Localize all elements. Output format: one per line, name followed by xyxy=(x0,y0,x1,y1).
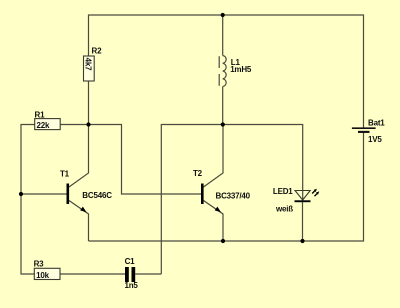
transistor T1 xyxy=(60,170,112,213)
wire R3 right lead xyxy=(60,273,125,275)
wire T1 emitter xyxy=(69,201,89,242)
inductor L1 xyxy=(219,56,252,87)
capacitor C1 xyxy=(125,257,139,290)
node T1 base junction xyxy=(19,192,23,196)
node L1 top junction xyxy=(221,13,225,17)
LED LED1 xyxy=(273,187,319,214)
svg-text:BC337/40: BC337/40 xyxy=(216,192,251,201)
node LED cathode junction xyxy=(300,239,304,243)
svg-text:weiß: weiß xyxy=(275,205,293,214)
svg-text:10k: 10k xyxy=(36,271,49,280)
svg-text:1n5: 1n5 xyxy=(125,281,139,290)
wire T2 collector xyxy=(204,125,224,188)
svg-text:C1: C1 xyxy=(125,257,136,266)
battery Bat1 xyxy=(352,119,385,144)
node T2 emitter junction xyxy=(221,239,225,243)
transistor T2 xyxy=(193,169,251,212)
wire C1 right lead xyxy=(135,273,161,275)
wire L1 top lead xyxy=(222,15,224,56)
svg-text:T1: T1 xyxy=(60,170,70,179)
svg-text:22k: 22k xyxy=(37,121,50,130)
wire T1 collector xyxy=(69,125,89,188)
node R1-R2-T1 junction xyxy=(86,122,90,126)
svg-text:1V5: 1V5 xyxy=(368,135,382,144)
wire L1 bottom lead xyxy=(222,87,224,125)
node L1-net2 junction xyxy=(221,122,225,126)
wire bottom rail xyxy=(89,132,364,241)
svg-text:R3: R3 xyxy=(34,259,45,268)
wire T2 emitter xyxy=(204,201,224,242)
svg-text:Bat1: Bat1 xyxy=(368,119,385,128)
wire left net vertical xyxy=(21,125,35,275)
resistor R1 xyxy=(35,110,61,130)
wire T1 base xyxy=(21,193,67,195)
svg-text:R2: R2 xyxy=(92,47,103,56)
resistor R3 xyxy=(34,259,60,280)
wire net2 horizontal xyxy=(161,125,302,275)
resistor R2 xyxy=(84,47,103,82)
svg-text:T2: T2 xyxy=(193,169,203,178)
svg-text:4k7: 4k7 xyxy=(84,58,93,71)
svg-text:LED1: LED1 xyxy=(273,187,293,196)
wire top rail xyxy=(89,15,364,128)
svg-text:1mH5: 1mH5 xyxy=(230,65,252,74)
wire R1 to T2 base xyxy=(60,125,201,195)
svg-text:R1: R1 xyxy=(35,110,46,119)
wire LED cathode lead xyxy=(302,202,304,241)
svg-text:BC546C: BC546C xyxy=(82,191,112,200)
wire R2 bottom lead xyxy=(88,81,90,125)
